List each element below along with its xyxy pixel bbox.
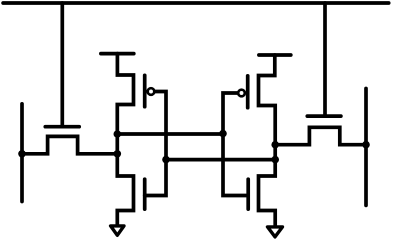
node right gate junction <box>219 130 227 138</box>
ground right <box>268 227 283 237</box>
wire bit line BLB <box>364 89 368 206</box>
wire left inverter gate <box>145 92 166 196</box>
transistor M3 M4 source-drain path right inverter <box>259 55 276 225</box>
wire WL top rail <box>3 1 389 5</box>
bubble PMOS M3 <box>238 90 245 97</box>
node BLB junction <box>362 141 370 149</box>
transistor M4 gate plate (NMOS right) <box>246 179 250 209</box>
node BL junction <box>18 150 26 158</box>
node Q upper junction <box>114 130 122 138</box>
transistor M3 gate plate (PMOS right) <box>246 76 250 108</box>
wire bit line BL <box>20 104 24 202</box>
ground left <box>111 226 124 235</box>
node QB upper junction <box>271 141 279 149</box>
wire node Q to right gate <box>117 132 223 136</box>
transistor M6 gate plate <box>307 114 341 118</box>
bubble PMOS M1 <box>148 88 155 95</box>
node Q lower junction <box>114 150 122 158</box>
transistor M2 gate plate (NMOS left) <box>143 179 147 209</box>
node left gate junction <box>162 156 170 164</box>
wire WL to M5 gate <box>60 3 64 127</box>
transistor M5 gate plate <box>45 125 79 129</box>
transistor M1 M2 source-drain path left inverter <box>117 54 133 225</box>
wire node QB to left gate <box>166 158 275 162</box>
transistor M5 channel and wire BL to node Q <box>22 136 117 153</box>
wire right inverter gate <box>223 93 248 196</box>
transistor M1 gate plate (PMOS left) <box>143 75 147 106</box>
wire WL to M6 gate <box>323 3 327 116</box>
node QB lower junction <box>271 156 279 164</box>
power VDD stub right <box>259 53 291 57</box>
transistor M6 channel and wire node QB to BLB <box>275 127 366 144</box>
power VDD stub left <box>101 52 134 56</box>
